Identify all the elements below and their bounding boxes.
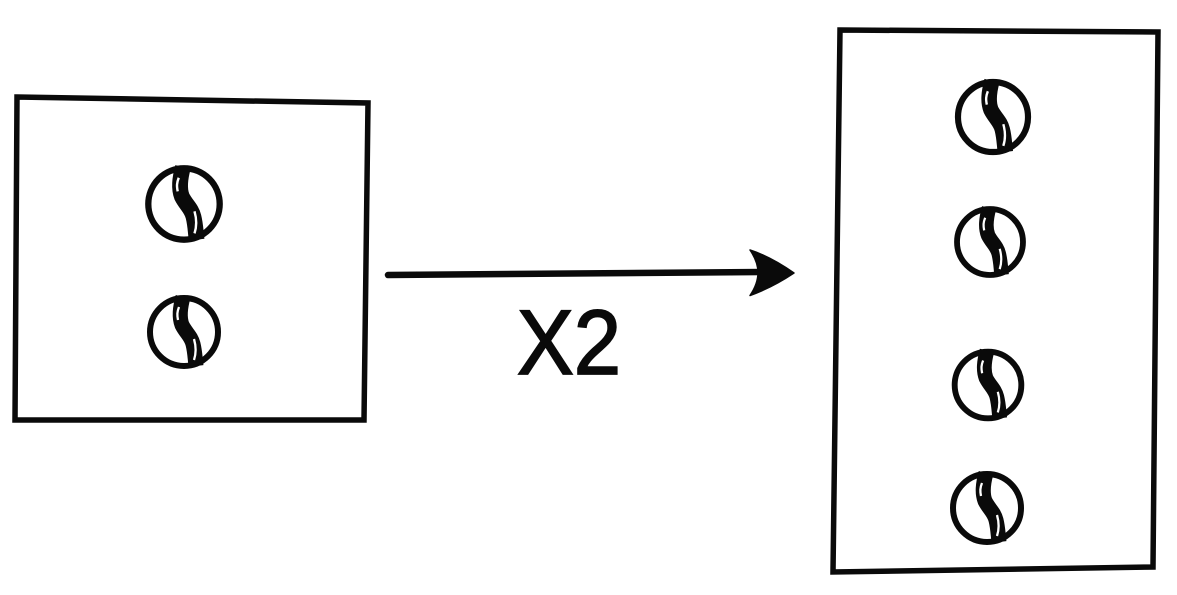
ball 1 in right box — [958, 81, 1028, 152]
ball 3 in right box — [955, 351, 1022, 419]
left box — [15, 97, 368, 420]
arrow shaft — [388, 272, 762, 275]
right box — [833, 30, 1158, 572]
ball 1 in left box — [148, 167, 219, 239]
ball 2 in left box — [150, 297, 218, 366]
svg-text:X2: X2 — [517, 292, 621, 394]
ball 4 in right box — [953, 473, 1021, 542]
ball 2 in right box — [957, 208, 1023, 275]
arrow head — [750, 250, 794, 296]
